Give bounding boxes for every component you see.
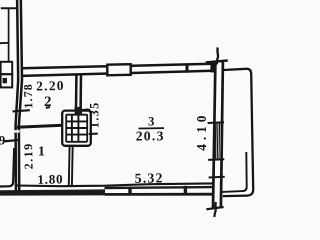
dimension tick at y=139 xyxy=(4,140,20,142)
dimension tick for 1.35 xyxy=(89,133,98,135)
wall between rooms 1 and 3 line 1 xyxy=(68,145,71,186)
top wall right cap bar xyxy=(210,62,215,73)
vent shaft outer box xyxy=(62,111,91,146)
window hatch line 1 right wall xyxy=(215,123,218,159)
window hatch line 2 right wall xyxy=(216,123,219,159)
vent shaft inner box xyxy=(66,115,87,142)
wall right outer line xyxy=(213,61,215,208)
window divider C top wall xyxy=(186,63,189,72)
wall right top cap xyxy=(206,61,228,63)
neighbor bottom corner xyxy=(0,148,14,187)
bottom window stretch bottom edge xyxy=(105,193,214,196)
svg-text:2: 2 xyxy=(44,94,52,110)
wall between rooms 2 and 3 line 1 xyxy=(75,75,78,109)
stairwell niche lower box xyxy=(1,74,13,87)
svg-text:1.35: 1.35 xyxy=(88,101,102,128)
vent shaft grid vertical 2 xyxy=(77,115,79,141)
vent shaft junction fill xyxy=(75,107,82,115)
svg-text:9: 9 xyxy=(0,133,6,148)
window bottom tick right wall xyxy=(208,158,224,161)
svg-text:20.3: 20.3 xyxy=(136,129,165,144)
vent shaft grid horizontal 3 xyxy=(67,134,87,136)
wall right top break stroke xyxy=(217,48,218,65)
svg-text:5.32: 5.32 xyxy=(135,170,164,186)
svg-text:2.20: 2.20 xyxy=(36,78,65,94)
bottom inner wall line xyxy=(17,183,213,186)
wall left inner line xyxy=(19,0,22,191)
wall notch white gap xyxy=(13,130,20,132)
wall between rooms 2 and 3 line 2 xyxy=(79,75,82,109)
vent shaft grid horizontal 1 xyxy=(67,120,87,122)
wall top lower line xyxy=(22,71,213,76)
stairwell shaft blob xyxy=(3,78,7,83)
window box top wall xyxy=(107,64,130,75)
vent shaft grid vertical 1 xyxy=(71,115,73,141)
door leaf dash room 2 xyxy=(46,106,50,109)
balcony inner outline xyxy=(222,152,246,192)
balcony outer outline xyxy=(223,69,253,196)
svg-text:1.80: 1.80 xyxy=(37,171,63,186)
vent shaft grid horizontal 2 xyxy=(67,127,87,129)
wall right bottom break stroke xyxy=(214,202,216,217)
bottom outer wall solid band xyxy=(0,189,105,195)
wall right bottom cap xyxy=(206,207,223,209)
svg-text:4.10: 4.10 xyxy=(194,112,209,151)
neighbor wall top-left vertical xyxy=(8,8,10,62)
neighbor tick upper xyxy=(0,42,9,44)
wall top upper line xyxy=(22,64,213,69)
door jamb tick at y=110 xyxy=(13,110,30,111)
vent shaft raised shoulder xyxy=(82,110,91,113)
wall left outer line xyxy=(16,0,19,191)
stairwell niche upper box xyxy=(1,62,13,74)
window hatch line 3 right wall xyxy=(218,123,221,159)
bottom window divider 1 xyxy=(128,187,131,196)
svg-text:2.19: 2.19 xyxy=(21,142,36,169)
svg-text:1: 1 xyxy=(38,144,45,159)
neighbor wall top-left horizontal xyxy=(1,7,17,9)
wall between rooms 1 and 3 line 2 xyxy=(71,145,74,186)
door sill tick right wall xyxy=(209,176,225,179)
svg-text:3: 3 xyxy=(148,114,154,128)
wall between rooms 1 and 2 xyxy=(17,125,63,127)
bottom window stretch top edge xyxy=(105,186,214,189)
svg-text:1.78: 1.78 xyxy=(21,83,36,109)
fraction bar room 3 xyxy=(139,127,165,129)
wall right inner line xyxy=(221,61,223,208)
bottom window divider 2 xyxy=(184,186,187,195)
window top tick right wall xyxy=(208,121,224,124)
